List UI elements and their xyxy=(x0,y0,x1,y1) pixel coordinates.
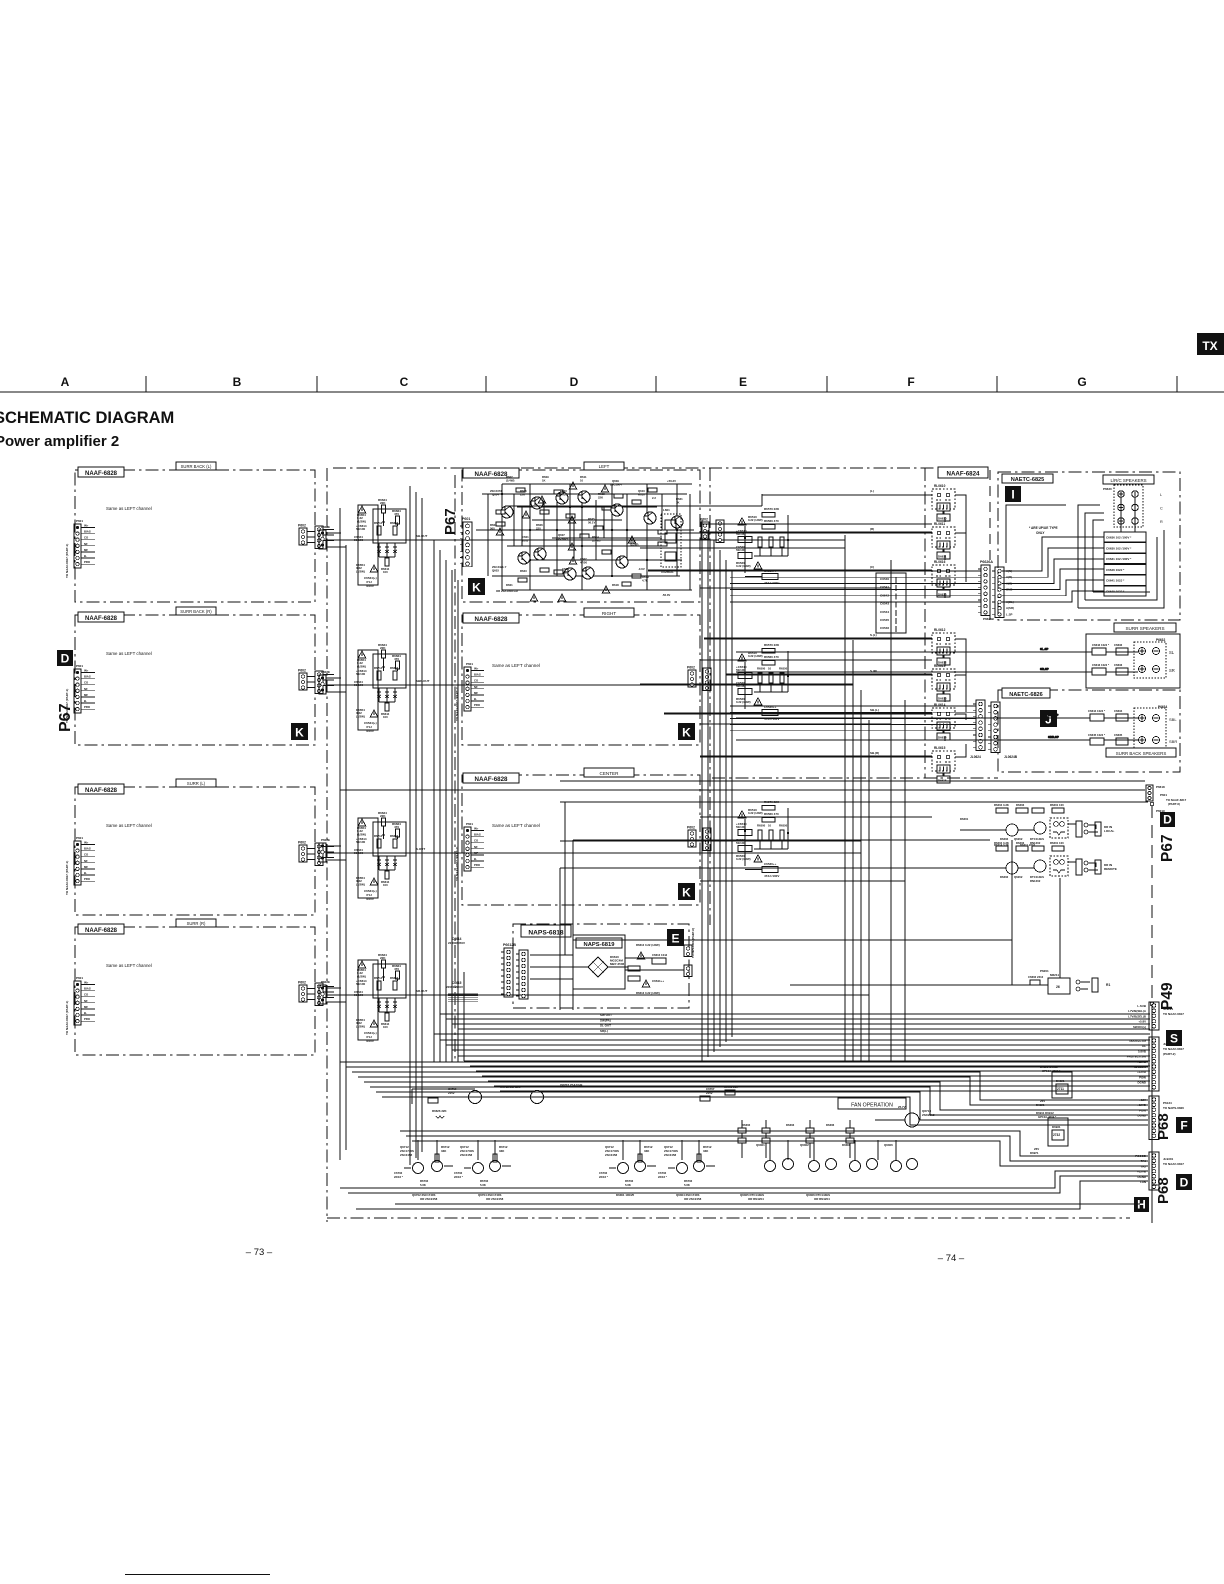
svg-text:50/100: 50/100 xyxy=(356,840,366,844)
svg-text:L7V/B(SEL)A: L7V/B(SEL)A xyxy=(1128,1009,1147,1013)
svg-text:D: D xyxy=(61,651,70,665)
svg-text:P67: P67 xyxy=(1159,834,1176,862)
wires to DR-IN area xyxy=(340,781,1148,1010)
svg-text:S.OUT: S.OUT xyxy=(416,847,425,851)
svg-text:22K: 22K xyxy=(598,496,603,500)
svg-text:IN+: IN+ xyxy=(474,827,479,831)
svg-text:C6634: C6634 xyxy=(1114,709,1123,713)
svg-text:P602: P602 xyxy=(298,981,306,985)
wires from P602E sub-ch3 xyxy=(326,846,861,903)
transistor riser stubs bottom xyxy=(418,1140,896,1160)
connector P602 stub (CENTER) xyxy=(688,830,696,847)
svg-text:FAN OPERATION: FAN OPERATION xyxy=(851,1103,893,1109)
surr back terminals SBL SBR xyxy=(1134,705,1167,750)
svg-text:Q6306: Q6306 xyxy=(884,1143,893,1147)
pcb block NAETC-6826 outline xyxy=(998,690,1180,772)
fan transistor Q6710 xyxy=(875,1105,940,1127)
protect transistor row xyxy=(394,1145,715,1187)
connector P601 (SURR (R)) xyxy=(74,976,95,1025)
svg-text:NF: NF xyxy=(84,542,88,546)
svg-text:2732: 2732 xyxy=(1053,1133,1060,1137)
svg-text:L601: L601 xyxy=(663,508,670,512)
svg-text:SBL: SBL xyxy=(1169,717,1177,722)
svg-text:1K: 1K xyxy=(676,501,680,505)
svg-text:(1/2W): (1/2W) xyxy=(357,832,366,836)
svg-text:22/16 *: 22/16 * xyxy=(599,1175,609,1179)
svg-text:TO NAAF-6817: TO NAAF-6817 xyxy=(1163,1162,1184,1166)
svg-text:D6021: D6021 xyxy=(1056,1079,1065,1083)
svg-text:C: C xyxy=(1160,507,1163,511)
transistor row part labels xyxy=(412,1193,830,1201)
surr back caps xyxy=(1088,709,1128,745)
svg-text:OR 2SA1049-GR: OR 2SA1049-GR xyxy=(496,589,518,593)
board name label NAAF-6828 (RIGHT) xyxy=(463,613,519,623)
svg-text:+12VD: +12VD xyxy=(1137,1070,1146,1074)
vertical wire bus center channel xyxy=(340,486,422,1165)
svg-text:D6615: D6615 xyxy=(938,779,947,783)
svg-text:/100V: /100V xyxy=(366,584,374,588)
svg-text:D601: D601 xyxy=(506,583,513,587)
svg-text:10: 10 xyxy=(768,531,772,535)
connector P6613A stub xyxy=(684,945,692,957)
svg-text:IN+: IN+ xyxy=(84,841,89,845)
svg-text:Same as LEFT channel: Same as LEFT channel xyxy=(492,663,540,668)
connector P602E stub outside (SURR BACK (R)) xyxy=(315,671,323,694)
svg-text:PRO: PRO xyxy=(84,560,91,564)
svg-text:* ARE UP/UE TYPE: * ARE UP/UE TYPE xyxy=(1029,526,1058,530)
svg-text:R6560 470: R6560 470 xyxy=(764,655,779,659)
svg-text:E: E xyxy=(671,931,679,945)
svg-text:NAAF-6828: NAAF-6828 xyxy=(474,776,508,783)
svg-text:D6211 220J: D6211 220J xyxy=(1020,843,1036,847)
svg-text:2SC3964: 2SC3964 xyxy=(610,483,622,487)
svg-text:NAAF-6828: NAAF-6828 xyxy=(85,471,118,477)
vertical bus right of E clusters xyxy=(702,520,732,1062)
connector P602 stub inside (SURR (R)) xyxy=(299,985,307,1002)
connector P601 (SURR BACK (L)) xyxy=(74,519,95,568)
svg-text:C6633: C6633 xyxy=(1114,663,1123,667)
svg-text:L/R/C SPEAKERS: L/R/C SPEAKERS xyxy=(1110,478,1146,483)
labels JL0624 xyxy=(970,755,1018,759)
svg-text:R6500: R6500 xyxy=(757,667,766,671)
svg-text:SL: SL xyxy=(1169,650,1175,655)
connector JL9301 strip xyxy=(1149,1152,1159,1190)
surr speaker terminals SL SR xyxy=(1134,638,1166,678)
RC network cluster sub-ch1 xyxy=(354,498,406,588)
svg-text:56.1V: 56.1V xyxy=(588,521,595,525)
svg-text:F: F xyxy=(907,375,914,389)
svg-text:50/100: 50/100 xyxy=(354,683,364,687)
relay to connector strip stubs xyxy=(955,495,966,757)
svg-text:D6306: D6306 xyxy=(842,1143,851,1147)
zone letter D lower xyxy=(1176,1174,1192,1190)
speaker cap list xyxy=(1104,532,1146,596)
svg-text:NAPS-6819: NAPS-6819 xyxy=(584,942,616,948)
svg-text:D6203: D6203 xyxy=(1016,803,1025,807)
relay RL0612 xyxy=(932,628,955,665)
junction dots (LEFT) xyxy=(501,493,678,577)
wires NAETC-6825 xyxy=(1002,505,1104,602)
svg-text:D6610: D6610 xyxy=(938,517,947,521)
surr speakers box xyxy=(1086,634,1180,688)
svg-text:NAETC-6826: NAETC-6826 xyxy=(1009,692,1043,698)
vertical wire bus right of clusters xyxy=(434,540,458,1062)
svg-text:473J /100V: 473J /100V xyxy=(764,717,779,721)
svg-text:POW: POW xyxy=(1139,1075,1146,1079)
svg-text:CO: CO xyxy=(84,681,89,685)
svg-text:IN+: IN+ xyxy=(84,669,89,673)
svg-text:K: K xyxy=(295,725,304,739)
svg-text:NAAF-6828: NAAF-6828 xyxy=(474,471,508,478)
svg-text:BIAS: BIAS xyxy=(474,833,481,837)
RC network cluster sub-ch3 xyxy=(354,811,406,901)
svg-text:+56.3V: +56.3V xyxy=(667,479,676,483)
svg-text:P6626B: P6626B xyxy=(983,617,995,621)
svg-text:C6632: C6632 xyxy=(1114,643,1123,647)
svg-text:Q6302: Q6302 xyxy=(800,1143,809,1147)
zone letter S xyxy=(1166,1030,1182,1046)
component value labels (LEFT) xyxy=(490,475,683,597)
svg-text:A: A xyxy=(61,375,70,389)
wires surr back xyxy=(736,713,1138,740)
svg-text:MF: MF xyxy=(84,1005,88,1009)
svg-text:PROTECT/SW: PROTECT/SW xyxy=(1127,1055,1147,1059)
svg-text:MF: MF xyxy=(84,548,88,552)
speaker terminals L/C/R xyxy=(1103,485,1143,527)
svg-text:5.6K: 5.6K xyxy=(480,1183,486,1187)
svg-text:D6611: D6611 xyxy=(938,555,947,559)
svg-text:2711: 2711 xyxy=(1057,1087,1064,1091)
connector stub right of LEFT block xyxy=(701,522,709,539)
svg-text:LOCAL: LOCAL xyxy=(1104,829,1114,833)
column tick marks xyxy=(146,376,1177,392)
svg-text:ONLY: ONLY xyxy=(1036,531,1045,535)
svg-text:BIAS: BIAS xyxy=(474,673,481,677)
connector P601 (SURR (L)) xyxy=(74,836,95,885)
svg-text:P602E: P602E xyxy=(321,980,330,984)
svg-text:R618: R618 xyxy=(612,583,619,587)
svg-text:P601: P601 xyxy=(466,662,473,666)
RC network cluster sub-ch2 xyxy=(354,643,406,733)
svg-text:C6545: C6545 xyxy=(880,618,889,622)
svg-text:RL0610: RL0610 xyxy=(934,484,946,488)
svg-text:Same as LEFT channel: Same as LEFT channel xyxy=(492,823,540,828)
svg-text:L.SUB: L.SUB xyxy=(1137,1004,1146,1008)
svg-text:CO: CO xyxy=(84,853,89,857)
relay RL0615 xyxy=(932,746,955,783)
svg-text:R6612 0.22 (1/2W): R6612 0.22 (1/2W) xyxy=(636,943,660,947)
svg-text:P601: P601 xyxy=(76,664,83,668)
svg-text:P601: P601 xyxy=(76,836,83,840)
channel pill label SURR (R) xyxy=(176,919,216,927)
svg-text:P6630: P6630 xyxy=(1103,487,1112,491)
svg-text:C6643 102J *: C6643 102J * xyxy=(1092,663,1110,667)
svg-text:R6550: R6550 xyxy=(779,667,788,671)
svg-text:P67: P67 xyxy=(442,508,459,535)
svg-text:47/50: 47/50 xyxy=(560,493,567,497)
svg-text:RN1202: RN1202 xyxy=(1030,879,1041,883)
svg-text:A(SR): A(SR) xyxy=(1006,606,1014,610)
connector P602 stub inside (SURR BACK (R)) xyxy=(299,673,307,690)
svg-text:2.2: 2.2 xyxy=(652,496,656,500)
svg-text:TO NAAF-6817 (PART-1): TO NAAF-6817 (PART-1) xyxy=(455,687,459,721)
svg-text:BIAS: BIAS xyxy=(84,847,91,851)
svg-text:50/100: 50/100 xyxy=(354,993,364,997)
svg-text:SW.DC(s): SW.DC(s) xyxy=(1133,1025,1146,1029)
wires P602 (SURR BACK (R)) xyxy=(307,675,334,688)
RC network cluster E-sub2 xyxy=(736,643,789,721)
zone letter K (left column) xyxy=(291,723,308,740)
note P6618 to NAAF-6817 xyxy=(1156,785,1187,813)
svg-text:B: B xyxy=(233,375,242,389)
svg-text:BIAS: BIAS xyxy=(84,675,91,679)
cap C6614 labels xyxy=(446,937,478,1001)
svg-text:5.6K: 5.6K xyxy=(625,1183,631,1187)
svg-text:NAAF-6824: NAAF-6824 xyxy=(946,471,980,478)
svg-text:SCHEMATIC DIAGRAM: SCHEMATIC DIAGRAM xyxy=(0,409,174,427)
svg-text:R6560 470: R6560 470 xyxy=(764,519,779,523)
zone letter D (left margin) xyxy=(57,650,73,666)
svg-text:R6500: R6500 xyxy=(757,824,766,828)
svg-text:P602: P602 xyxy=(700,518,708,522)
svg-text:GP10A-4004 *: GP10A-4004 * xyxy=(1038,1115,1057,1119)
svg-text:R6714: R6714 xyxy=(374,666,383,670)
svg-text:PROTECTor: PROTECTor xyxy=(1130,1039,1147,1043)
wires DR-IN to M6211 area xyxy=(573,840,1060,985)
svg-text:MBY-2506: MBY-2506 xyxy=(610,962,625,966)
svg-text:RL0615: RL0615 xyxy=(934,746,946,750)
center region dash-dot border left xyxy=(327,468,935,1222)
connector JL0624B strip xyxy=(988,702,1000,752)
separator dash line right of relays xyxy=(989,470,991,620)
svg-text:Q6707 2SA1049: Q6707 2SA1049 xyxy=(560,1083,583,1087)
svg-text:PRO: PRO xyxy=(84,705,91,709)
svg-text:I: I xyxy=(1011,487,1014,501)
svg-text:P68: P68 xyxy=(1155,1177,1172,1204)
svg-text:NAAF-6828: NAAF-6828 xyxy=(85,928,118,934)
svg-text:NF: NF xyxy=(474,685,478,689)
jack circuit DR IN LOCAL xyxy=(960,803,1114,845)
wires from JL0624 strips leftwards xyxy=(730,706,976,731)
svg-text:GND: GND xyxy=(1152,1183,1158,1187)
caps right of bridge xyxy=(628,943,668,995)
svg-text:S.(R): S.(R) xyxy=(870,669,877,673)
svg-text:-0.6V: -0.6V xyxy=(638,567,645,571)
svg-text:P67: P67 xyxy=(57,703,74,732)
connector JL0624A strip xyxy=(973,700,985,750)
jack circuit DR IN REMOTE xyxy=(960,841,1117,883)
svg-text:TO NAAF-6817 (PART-1): TO NAAF-6817 (PART-1) xyxy=(65,861,69,895)
pcb block NAAF-6828 SURR BACK (L) outline xyxy=(75,470,315,602)
RC network cluster E-sub1 xyxy=(736,507,789,585)
connector P6612A strip xyxy=(516,950,528,999)
pcb block NAAF-6828 SURR BACK (R) outline xyxy=(75,615,315,745)
svg-text:SW(PA): SW(PA) xyxy=(600,1018,611,1022)
svg-text:MF: MF xyxy=(84,865,88,869)
pcb block NAAF-6828 LEFT (detailed) outline xyxy=(462,470,700,602)
svg-text:P6632: P6632 xyxy=(1156,638,1165,642)
D6911 network lower xyxy=(1030,1111,1068,1155)
connector P6134 strip xyxy=(1149,1096,1159,1139)
wires NAPS block xyxy=(530,949,684,979)
pin labels P601 (SURR (L)) xyxy=(84,841,91,882)
channel pill label LEFT xyxy=(584,462,624,470)
board name label NAAF-6828 (SURR (L)) xyxy=(78,784,124,794)
warning triangles (LEFT) xyxy=(496,482,635,601)
svg-text:H: H xyxy=(1137,1198,1146,1212)
svg-text:0.22 (1/2W): 0.22 (1/2W) xyxy=(748,518,763,522)
svg-text:P602: P602 xyxy=(298,841,306,845)
connector P602E stub outside (SURR BACK (L)) xyxy=(315,526,323,549)
svg-text:10: 10 xyxy=(768,824,772,828)
svg-text:OR 2SC2458: OR 2SC2458 xyxy=(420,1197,438,1201)
connector P6626A strip xyxy=(978,565,990,615)
svg-text:SB.(L): SB.(L) xyxy=(870,708,879,712)
svg-text:R6204 3.3K: R6204 3.3K xyxy=(994,803,1009,807)
svg-text:C6644 102J *: C6644 102J * xyxy=(1088,709,1106,713)
svg-text:RL0611: RL0611 xyxy=(934,522,945,526)
svg-text:50/100: 50/100 xyxy=(736,841,746,845)
svg-text:P602: P602 xyxy=(687,826,695,830)
svg-text:R6550: R6550 xyxy=(779,531,788,535)
svg-text:0.22 (1/2W): 0.22 (1/2W) xyxy=(736,700,751,704)
zone letter J xyxy=(1040,710,1057,727)
note up-for-type xyxy=(1029,526,1058,535)
connector P601 (RIGHT) xyxy=(464,662,484,711)
svg-text:RL0613: RL0613 xyxy=(934,664,946,668)
pin labels P601 (SURR BACK (R)) xyxy=(84,669,91,710)
svg-text:C6641 102J *: C6641 102J * xyxy=(1106,579,1125,583)
svg-text:NF: NF xyxy=(84,687,88,691)
svg-text:NF: NF xyxy=(84,859,88,863)
svg-text:100: 100 xyxy=(383,883,388,887)
column letters A-G xyxy=(61,375,1087,389)
zone letter K (RIGHT) xyxy=(678,723,695,740)
svg-text:0.22 (1/2W): 0.22 (1/2W) xyxy=(748,811,763,815)
svg-text:D: D xyxy=(1163,813,1172,827)
wire labels at P6626 xyxy=(983,569,1014,621)
label SURR BACK SPEAKERS xyxy=(1106,748,1176,757)
svg-text:IN+: IN+ xyxy=(84,981,89,985)
svg-text:C: C xyxy=(400,375,409,389)
svg-text:F: F xyxy=(1180,1118,1187,1132)
zone letter H xyxy=(1134,1197,1149,1212)
svg-text:D: D xyxy=(1180,1175,1189,1189)
board name label NAAF-6828 (SURR (R)) xyxy=(78,924,124,934)
svg-text:SURR BACK (L): SURR BACK (L) xyxy=(181,464,212,469)
svg-text:473J /100V: 473J /100V xyxy=(764,874,779,878)
svg-text:JL0624: JL0624 xyxy=(970,755,981,759)
channel pill label SURR BACK (L) xyxy=(176,462,216,470)
connector P601 (LEFT block) xyxy=(460,522,472,567)
svg-text:50/100: 50/100 xyxy=(356,982,366,986)
svg-text:D6361 100/25: D6361 100/25 xyxy=(616,1193,635,1197)
wires P602 (SURR (R)) xyxy=(307,987,334,1000)
right edge dashed trunk xyxy=(1150,802,1154,1223)
svg-text:(1/2W): (1/2W) xyxy=(356,882,365,886)
svg-text:(1/2W): (1/2W) xyxy=(356,569,365,573)
channel pill label SURR BACK (R) xyxy=(176,607,216,615)
zone letter I xyxy=(1005,486,1021,502)
svg-text:C6611++: C6611++ xyxy=(652,979,664,983)
svg-text:LEFT: LEFT xyxy=(599,464,610,469)
svg-text:D6306: D6306 xyxy=(826,1123,835,1127)
wires from P6626 strips leftwards xyxy=(730,571,981,602)
svg-text:SR: SR xyxy=(1169,668,1175,673)
connector P6613B stub xyxy=(684,965,692,977)
svg-text:+5.8V: +5.8V xyxy=(1138,1020,1146,1024)
bottom dash-dot border xyxy=(327,1217,1130,1219)
svg-text:P602: P602 xyxy=(687,666,695,670)
svg-text:D: D xyxy=(570,375,579,389)
svg-text:C6645 102J *: C6645 102J * xyxy=(1088,733,1106,737)
svg-text:(PART-6): (PART-6) xyxy=(1168,802,1180,806)
svg-text:CO: CO xyxy=(474,679,479,683)
zone letter D (right DR-IN) xyxy=(1160,812,1175,827)
zone letter F xyxy=(1176,1117,1192,1133)
wires P602 (SURR BACK (L)) xyxy=(307,530,334,543)
small resistor boxes (LEFT) xyxy=(496,488,667,586)
surr speaker caps xyxy=(1092,643,1128,675)
svg-text:R6570 22K: R6570 22K xyxy=(764,507,780,511)
svg-text:GP10A-4004 *: GP10A-4004 * xyxy=(1042,1069,1061,1073)
svg-text:100: 100 xyxy=(383,1025,388,1029)
bus labels SW OUT xyxy=(600,1013,612,1033)
connector P602E stub outside (SURR (R)) xyxy=(315,983,323,1006)
svg-text:R6560 470: R6560 470 xyxy=(764,812,779,816)
svg-text:B-: B- xyxy=(474,857,477,861)
svg-text:/100V: /100V xyxy=(366,729,374,733)
svg-text:47/50: 47/50 xyxy=(580,561,587,565)
svg-text:50/100: 50/100 xyxy=(354,538,364,542)
connector P6612B strip xyxy=(501,948,513,997)
svg-text:RL0614: RL0614 xyxy=(934,703,946,707)
svg-text:P601: P601 xyxy=(1160,793,1167,797)
svg-text:REMOTE: REMOTE xyxy=(1104,867,1117,871)
svg-text:C6530++: C6530++ xyxy=(764,862,777,866)
svg-text:Q604: Q604 xyxy=(492,493,499,497)
svg-text:0.22 (1/2W): 0.22 (1/2W) xyxy=(736,564,751,568)
svg-text:100: 100 xyxy=(383,570,388,574)
bridge rectifier D6610 xyxy=(588,955,625,977)
fan drive transistor row right xyxy=(756,1143,918,1172)
board NAPS-6819 inner box xyxy=(573,935,625,989)
svg-text:TX: TX xyxy=(1202,339,1217,353)
svg-text:OR RN1204: OR RN1204 xyxy=(748,1197,764,1201)
svg-text:SB.(R): SB.(R) xyxy=(870,751,879,755)
speaker letters L C R xyxy=(1160,493,1163,524)
svg-text:C6541: C6541 xyxy=(880,585,889,589)
svg-text:P6201: P6201 xyxy=(1040,969,1049,973)
svg-text:1K: 1K xyxy=(542,479,546,483)
svg-text:Same as LEFT channel: Same as LEFT channel xyxy=(106,506,152,511)
pin labels P601 (CENTER) xyxy=(474,827,481,868)
svg-text:TO NAAF-6817: TO NAAF-6817 xyxy=(1163,1012,1184,1016)
svg-text:5.6K: 5.6K xyxy=(684,1183,690,1187)
relay RL0610 xyxy=(932,484,955,521)
svg-text:CENTER: CENTER xyxy=(600,771,620,776)
svg-text:R6500: R6500 xyxy=(757,531,766,535)
svg-text:P601: P601 xyxy=(76,976,83,980)
svg-text:P602: P602 xyxy=(298,669,306,673)
svg-text:SURR SPEAKERS: SURR SPEAKERS xyxy=(1125,626,1164,631)
connector P602E sub-ch2 xyxy=(319,670,330,694)
svg-text:D6302: D6302 xyxy=(742,1123,751,1127)
bus wires below NAPS block xyxy=(434,1014,1150,1091)
wires from P602E sub-ch1 xyxy=(326,533,845,590)
svg-text:R6714: R6714 xyxy=(374,976,383,980)
svg-text:SL OUT: SL OUT xyxy=(600,1024,611,1028)
